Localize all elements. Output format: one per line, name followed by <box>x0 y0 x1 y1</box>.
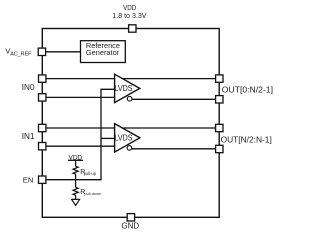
svg-text:AC_REF: AC_REF <box>10 51 32 57</box>
svg-text:EN: EN <box>23 175 34 184</box>
svg-text:OUT[0:N/2-1]: OUT[0:N/2-1] <box>222 85 273 95</box>
svg-text:Generator: Generator <box>86 48 120 57</box>
svg-text:VDD: VDD <box>69 155 83 162</box>
svg-text:LVDS: LVDS <box>115 83 133 93</box>
svg-text:OUT[N/2:N-1]: OUT[N/2:N-1] <box>221 135 272 145</box>
svg-text:pull-down: pull-down <box>84 191 101 196</box>
svg-text:IN1: IN1 <box>22 132 35 141</box>
svg-text:LVDS: LVDS <box>115 133 133 143</box>
svg-text:1.8 to 3.3V: 1.8 to 3.3V <box>112 11 147 20</box>
svg-text:IN0: IN0 <box>22 83 35 92</box>
svg-text:pull-up: pull-up <box>84 171 97 176</box>
svg-text:GND: GND <box>121 222 139 231</box>
